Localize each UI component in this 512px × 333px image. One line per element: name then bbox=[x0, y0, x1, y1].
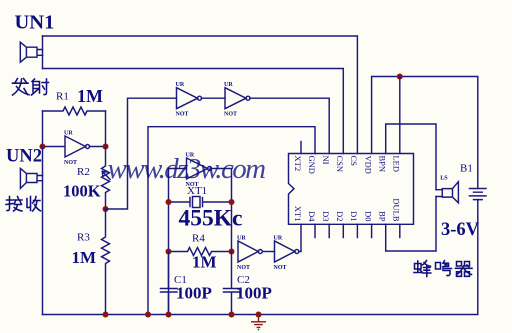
svg-text:100K: 100K bbox=[63, 182, 101, 201]
pin D1 stub bbox=[356, 224, 358, 237]
potentiometer R2 bbox=[102, 147, 111, 210]
label 1M of R1 bbox=[77, 86, 103, 106]
svg-text:D0: D0 bbox=[363, 211, 373, 221]
svg-text:100P: 100P bbox=[176, 284, 212, 303]
svg-text:VDD: VDD bbox=[363, 156, 373, 174]
svg-text:1M: 1M bbox=[72, 248, 97, 267]
op-amp inverter U4 (oscillator gate) bbox=[169, 153, 232, 252]
pin D0 stub bbox=[371, 224, 373, 237]
label 1M of R3 bbox=[72, 248, 97, 267]
label C2 bbox=[237, 274, 250, 286]
node ground rail C2 bbox=[229, 312, 235, 318]
op-amp inverter U1 (gate 1) bbox=[43, 131, 106, 167]
node gate1 input bbox=[40, 144, 46, 150]
ground symbol bbox=[251, 315, 266, 330]
battery B1 bbox=[470, 189, 487, 200]
svg-text:R2: R2 bbox=[77, 166, 90, 178]
svg-text:UR: UR bbox=[64, 131, 73, 137]
svg-text:455Kc: 455Kc bbox=[179, 206, 243, 232]
wire R1 right vertical bbox=[105, 111, 107, 147]
pin label XT2 bbox=[293, 156, 303, 172]
svg-text:UR: UR bbox=[274, 236, 283, 242]
pin label VDD bbox=[363, 156, 373, 174]
svg-text:UN1: UN1 bbox=[15, 12, 55, 34]
node R4 right bbox=[229, 249, 235, 255]
pin label IN bbox=[321, 156, 331, 165]
label 蜂鸣器 (buzzer) bbox=[414, 261, 472, 277]
svg-text:100P: 100P bbox=[236, 284, 272, 303]
label R2 bbox=[77, 166, 90, 178]
svg-text:LED: LED bbox=[392, 156, 402, 173]
label C1 bbox=[174, 274, 187, 286]
svg-text:D3: D3 bbox=[321, 211, 331, 221]
IC U7 body bbox=[289, 154, 414, 225]
wire battery negative to ground rail bbox=[43, 200, 478, 315]
transducer UN1 bbox=[20, 42, 42, 62]
node R4 left bbox=[166, 249, 172, 255]
wire VDD to battery bbox=[372, 77, 478, 189]
wire UN2 vertical bbox=[42, 147, 44, 315]
node LED/VDD junction bbox=[397, 74, 403, 80]
label 100K of R2 bbox=[63, 182, 101, 201]
op-amp inverter U3 (gate 3) bbox=[224, 82, 329, 154]
svg-text:D1: D1 bbox=[349, 211, 359, 221]
svg-text:XT1: XT1 bbox=[187, 185, 207, 197]
svg-text:NOT: NOT bbox=[176, 112, 189, 118]
svg-text:R1: R1 bbox=[56, 91, 69, 103]
pin label D3 bbox=[321, 211, 331, 221]
svg-text:NI: NI bbox=[321, 156, 331, 165]
svg-text:NOT: NOT bbox=[224, 112, 237, 118]
pin label LED bbox=[392, 156, 402, 173]
op-amp inverter U5 (gate 5) bbox=[237, 236, 275, 272]
node gate1 output bbox=[103, 144, 109, 150]
node R2/R3 junction bbox=[103, 206, 109, 212]
svg-text:CSN: CSN bbox=[335, 156, 345, 173]
svg-text:NOT: NOT bbox=[64, 160, 77, 166]
resistor R4 bbox=[169, 248, 232, 256]
label 发射 (transmit) bbox=[13, 79, 49, 96]
pin D4 stub bbox=[314, 224, 316, 237]
crystal XT1 bbox=[169, 197, 232, 208]
svg-text:BPN: BPN bbox=[378, 156, 388, 173]
svg-text:NOT: NOT bbox=[237, 265, 250, 271]
label LS of buzzer bbox=[440, 176, 448, 182]
wire BPN to buzzer bbox=[386, 124, 436, 251]
watermark www.dz3w.com bbox=[108, 153, 266, 185]
label UN2 bbox=[6, 147, 42, 167]
label XT1 bbox=[187, 185, 207, 197]
op-amp inverter U2 (gate 2) bbox=[176, 82, 226, 118]
pin label CS bbox=[349, 156, 359, 167]
svg-text:GND: GND bbox=[307, 156, 317, 174]
node ground tap bbox=[256, 312, 262, 318]
svg-text:D2: D2 bbox=[335, 211, 345, 221]
pin label D4 bbox=[307, 211, 317, 222]
svg-text:UR: UR bbox=[224, 82, 233, 88]
svg-text:LS: LS bbox=[440, 176, 448, 182]
wire LED pin riser bbox=[399, 77, 401, 154]
svg-text:D4: D4 bbox=[307, 211, 317, 222]
pin DULB stub bbox=[399, 224, 401, 237]
capacitor C2 bbox=[224, 252, 241, 315]
pin label XT1 bbox=[293, 206, 303, 222]
pin label D0 bbox=[363, 211, 373, 221]
svg-text:XT2: XT2 bbox=[293, 156, 303, 172]
buzzer LS1 bbox=[436, 182, 458, 203]
svg-text:CS: CS bbox=[349, 156, 359, 167]
svg-text:NOT: NOT bbox=[274, 265, 287, 271]
svg-text:UR: UR bbox=[237, 236, 246, 242]
svg-text:DULB: DULB bbox=[392, 198, 402, 221]
wire CS net top bbox=[43, 36, 358, 154]
pin label GND bbox=[307, 156, 317, 174]
pin label BP bbox=[378, 211, 388, 222]
pin label D2 bbox=[335, 211, 345, 221]
pin XT2 stub bbox=[300, 142, 302, 154]
svg-text:R4: R4 bbox=[192, 233, 205, 245]
node ground rail GND wire bbox=[145, 312, 151, 318]
label 接收 (receive) bbox=[6, 197, 41, 212]
svg-text:XT1: XT1 bbox=[293, 206, 303, 222]
wire GND net bbox=[148, 127, 315, 315]
pin label BPN bbox=[378, 156, 388, 173]
pin label DULB bbox=[392, 198, 402, 221]
label 100P of C1 bbox=[176, 284, 212, 303]
svg-text:B1: B1 bbox=[460, 163, 473, 175]
node crystal left bbox=[166, 199, 172, 205]
svg-text:3-6V: 3-6V bbox=[441, 220, 480, 240]
svg-text:UN2: UN2 bbox=[6, 147, 42, 167]
svg-text:www.dz3w.com: www.dz3w.com bbox=[108, 153, 266, 185]
svg-text:R3: R3 bbox=[77, 232, 90, 244]
resistor R3 bbox=[102, 209, 110, 315]
label 100P of C2 bbox=[236, 284, 272, 303]
wire CSN net bbox=[43, 69, 344, 154]
svg-text:BP: BP bbox=[378, 211, 388, 222]
label 1M of R4 bbox=[192, 253, 217, 272]
label UN1 bbox=[15, 12, 55, 34]
op-amp inverter U6 (gate 6) bbox=[274, 224, 302, 271]
node ground rail C1 bbox=[166, 312, 172, 318]
transducer UN2 bbox=[20, 168, 42, 188]
capacitor C1 bbox=[161, 252, 178, 315]
label R1 bbox=[56, 91, 69, 103]
pin label CSN bbox=[335, 156, 345, 173]
wire R1 left vertical bbox=[42, 111, 44, 147]
label B1 bbox=[460, 163, 473, 175]
pin D3 stub bbox=[328, 224, 330, 237]
pin D2 stub bbox=[342, 224, 344, 237]
label R4 bbox=[192, 233, 205, 245]
pin label D1 bbox=[349, 211, 359, 221]
node ground rail R3 bbox=[103, 312, 109, 318]
wire UN1 vertical stub bbox=[42, 36, 44, 69]
resistor R1 bbox=[43, 107, 106, 115]
svg-text:UR: UR bbox=[176, 82, 185, 88]
wire oscillator left vertical bbox=[168, 169, 170, 315]
node crystal right bbox=[229, 199, 235, 205]
label R3 bbox=[77, 232, 90, 244]
svg-text:1M: 1M bbox=[192, 253, 217, 272]
label 3-6V bbox=[441, 220, 480, 240]
wire gate2 input path bbox=[106, 98, 177, 209]
svg-text:1M: 1M bbox=[77, 86, 103, 106]
label 455Kc bbox=[179, 206, 243, 232]
